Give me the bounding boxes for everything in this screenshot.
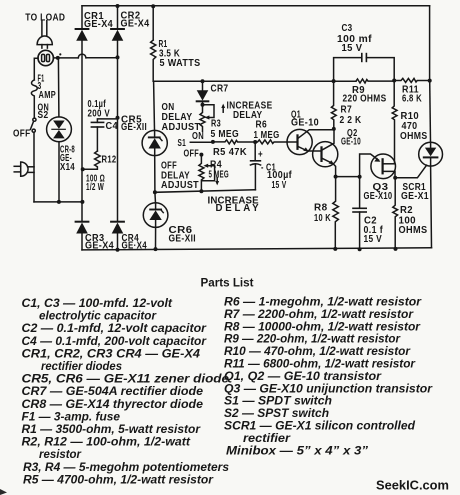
resistor R2 [393, 178, 398, 249]
svg-text:R6 — 1-megohm, 1/2-watt resist: R6 — 1-megohm, 1/2-watt resistor [224, 296, 423, 309]
svg-text:OFF: OFF [184, 149, 200, 160]
node R1 top rail junction [151, 4, 155, 8]
svg-text:S1 — SPDT switch: S1 — SPDT switch [224, 395, 332, 408]
svg-text:1/2 W: 1/2 W [86, 182, 104, 193]
asterisk mark [59, 53, 61, 55]
transistor Q2 [313, 129, 338, 177]
diode CR4 [111, 222, 124, 250]
capacitor C3 [334, 54, 395, 82]
svg-text:C3: C3 [342, 23, 353, 34]
svg-text:OHMS: OHMS [399, 225, 428, 236]
resistor R1 [151, 6, 156, 81]
svg-text:R3, R4 — 5-megohm potentiomete: R3, R4 — 5-megohm potentiometers [23, 461, 230, 474]
switch S1 and main wire [190, 141, 213, 143]
plug to load [37, 21, 52, 48]
resistor R12 [83, 151, 100, 169]
svg-text:S2 — SPST switch: S2 — SPST switch [224, 407, 329, 420]
zener CR6 [143, 192, 168, 249]
svg-text:R5 47K: R5 47K [213, 147, 247, 158]
node rail CR6 [154, 247, 158, 251]
node rail R2 [394, 247, 398, 251]
svg-text:electrolytic capacitor: electrolytic capacitor [39, 310, 157, 323]
svg-text:R9 — 220-ohm, 1/2-watt resisto: R9 — 220-ohm, 1/2-watt resistor [224, 333, 401, 346]
svg-text:TO LOAD: TO LOAD [25, 13, 65, 24]
svg-text:2 2 K: 2 2 K [340, 115, 362, 126]
node R12 to AC2 [81, 167, 85, 171]
svg-text:5 MEG: 5 MEG [211, 129, 240, 140]
wire mid rail y81 [153, 80, 356, 82]
node Q3 base1 gate [393, 176, 397, 180]
svg-text:CR5, CR6 — GE-X11 zener diode: CR5, CR6 — GE-X11 zener diode [22, 373, 230, 386]
node rail CR4 [116, 248, 120, 252]
wire top-right vertical to SCR anode node [429, 6, 431, 81]
potentiometer R3 [200, 105, 214, 132]
wire SCR gate [395, 165, 426, 178]
node R9-R10-C3 [392, 79, 396, 83]
resistor R9 [356, 79, 394, 83]
svg-text:Minibox — 5” x 4” x 3”: Minibox — 5” x 4” x 3” [226, 444, 368, 457]
svg-text:R2: R2 [400, 205, 413, 216]
svg-text:SeekIC.com: SeekIC.com [376, 478, 449, 493]
node S1 OFF contact [199, 153, 203, 157]
socket to load [38, 50, 53, 65]
svg-text:CR7 — GE-504A rectifier diode: CR7 — GE-504A rectifier diode [22, 385, 204, 398]
svg-text:GE-XII: GE-XII [169, 233, 197, 244]
svg-text:R11 — 6800-ohm, 1/2-watt resis: R11 — 6800-ohm, 1/2-watt resistor [224, 358, 417, 371]
wire socket right [53, 57, 78, 59]
resistor R8 [333, 177, 339, 249]
svg-text:Q1, Q2 — GE-10 transistor: Q1, Q2 — GE-10 transistor [224, 370, 383, 383]
svg-text:200 V: 200 V [88, 108, 111, 119]
node R4 bottom [199, 189, 203, 193]
node C1 top [253, 140, 257, 144]
svg-text:GE-X4: GE-X4 [121, 19, 150, 30]
diode CR3 [76, 222, 89, 250]
node CR7 cathode [201, 103, 205, 107]
svg-text:C2 — 0.1-mfd, 12-volt capacito: C2 — 0.1-mfd, 12-volt capacitor [22, 322, 208, 335]
svg-text:GE-X4: GE-X4 [84, 19, 113, 30]
svg-text:ON: ON [192, 131, 204, 142]
resistor R6 [255, 140, 297, 144]
switch S2 [30, 118, 36, 202]
svg-text:GE-X10: GE-X10 [364, 191, 393, 202]
svg-text:S1: S1 [178, 138, 187, 149]
capacitor C4 [91, 119, 116, 151]
transistor Q1 [287, 129, 334, 154]
node AC2 bottom [80, 200, 84, 204]
svg-text:F1 — 3-amp. fuse: F1 — 3-amp. fuse [22, 410, 121, 423]
svg-text:+: + [258, 150, 263, 161]
svg-text:GE-10: GE-10 [341, 136, 361, 147]
node CR2 top rail junction [116, 4, 120, 8]
svg-text:rectifier diodes: rectifier diodes [41, 360, 123, 373]
svg-text:R7: R7 [341, 104, 353, 115]
svg-text:resistor: resistor [39, 448, 82, 461]
svg-text:R7 — 2200-ohm, 1/2-watt resist: R7 — 2200-ohm, 1/2-watt resistor [224, 308, 415, 321]
node Q2 emitter R8 [334, 175, 338, 179]
wire hop over CR1 line [78, 54, 117, 58]
wire plug bottom to bridge [34, 201, 82, 203]
unijunction Q3 [360, 154, 396, 179]
svg-text:rectifier: rectifier [243, 432, 292, 445]
svg-text:Parts List: Parts List [201, 276, 254, 290]
node rail C2 [358, 247, 362, 251]
svg-text:C4 — 0.1-mfd, 200-volt capacit: C4 — 0.1-mfd, 200-volt capacitor [22, 335, 208, 348]
svg-text:GE-XII: GE-XII [121, 122, 147, 133]
svg-text:ADJUST: ADJUST [161, 180, 199, 191]
svg-text:GE·X4: GE·X4 [122, 241, 148, 252]
svg-text:C1, C3 — 100-mfd. 12-volt: C1, C3 — 100-mfd. 12-volt [22, 297, 174, 310]
svg-text:S2: S2 [38, 110, 49, 121]
svg-text:15 V: 15 V [342, 43, 363, 54]
wire bottom rail DC- [82, 248, 432, 250]
svg-text:GE-10: GE-10 [291, 117, 319, 128]
node mid-left rail [153, 190, 157, 194]
svg-text:R3: R3 [211, 119, 221, 130]
svg-text:R1 — 3500-ohm, 5-watt resistor: R1 — 3500-ohm, 5-watt resistor [22, 423, 202, 436]
resistor R10 [392, 81, 397, 164]
svg-text:CR1, CR2, CR3 CR4 — GE-X4: CR1, CR2, CR3 CR4 — GE-X4 [22, 347, 201, 360]
wire Q2 emitter to C2 node [336, 176, 360, 178]
diode CR2 [111, 6, 124, 222]
wire socket left to fuse [34, 58, 38, 80]
arrow increase delay (upper) [221, 104, 225, 113]
svg-text:DELAY: DELAY [216, 203, 260, 214]
node R7 top [332, 79, 336, 83]
svg-text:CR7: CR7 [211, 83, 229, 94]
diode CR1 [76, 6, 89, 222]
node C4 to AC1 [116, 116, 120, 120]
svg-text:GE-X4: GE-X4 [85, 241, 114, 252]
SCR1 [419, 81, 443, 248]
svg-text:CR8 — GE-X14 thyrector diode: CR8 — GE-X14 thyrector diode [22, 398, 204, 411]
svg-text:5 WATTS: 5 WATTS [160, 58, 201, 69]
fuse F1 [31, 80, 37, 118]
svg-text:R2, R12 — 100-ohm, 1/2-watt: R2, R12 — 100-ohm, 1/2-watt [22, 436, 192, 449]
node Q1-Q2 collectors R7 [332, 127, 336, 131]
node socket-CR8 junction [56, 56, 60, 60]
parts list [22, 276, 434, 487]
node AC1 on CR2 line [116, 55, 120, 59]
svg-text:1 MEG: 1 MEG [254, 130, 280, 141]
svg-text:R6: R6 [256, 119, 268, 130]
svg-text:C4: C4 [106, 121, 119, 132]
svg-text:X14: X14 [60, 162, 75, 173]
node rail R8 [333, 247, 337, 251]
resistor R11 [394, 78, 429, 82]
node CR7 top [201, 79, 205, 83]
capacitor C1 [250, 142, 260, 190]
svg-text:OHMS: OHMS [400, 131, 428, 142]
node CR8 bottom [57, 200, 61, 204]
page corner mark [0, 489, 7, 495]
svg-text:10 K: 10 K [314, 213, 331, 224]
svg-text:GE-X1: GE-X1 [401, 191, 429, 202]
svg-text:Q3 — GE-X10 unijunction transi: Q3 — GE-X10 unijunction transistor [224, 382, 434, 395]
thyrector CR8 [47, 58, 72, 202]
svg-text:SCR1 — GE-X1 silicon controlle: SCR1 — GE-X1 silicon controlled [224, 420, 416, 433]
svg-text:AMP: AMP [39, 90, 57, 101]
resistor R5 [213, 140, 255, 144]
capacitor C2 [353, 177, 366, 250]
svg-text:R10 — 470-ohm, 1/2-watt resist: R10 — 470-ohm, 1/2-watt resistor [224, 345, 412, 358]
svg-text:R5 — 4700-ohm, 1/2-watt resist: R5 — 4700-ohm, 1/2-watt resistor [23, 473, 215, 486]
svg-text:220 OHMS: 220 OHMS [343, 94, 387, 105]
resistor R7 [331, 81, 336, 129]
svg-text:5 MEG: 5 MEG [209, 169, 230, 180]
text labels schematic [13, 10, 429, 251]
node SCR anode top [428, 79, 432, 83]
wire top rail DC+ [82, 5, 430, 7]
plug AC input [14, 162, 34, 176]
svg-text:6.8 K: 6.8 K [402, 94, 422, 105]
svg-text:R12: R12 [102, 154, 117, 165]
zener CR5 [142, 81, 167, 192]
diode CR7 [197, 81, 209, 105]
arrow increase delay (lower) [215, 177, 219, 185]
svg-text:R8: R8 [314, 202, 328, 213]
potentiometer R4 [199, 155, 215, 192]
node S1 ON contact [211, 140, 215, 144]
svg-text:R8 — 10000-ohm, 1/2-watt resis: R8 — 10000-ohm, 1/2-watt resistor [224, 320, 422, 333]
svg-text:OFF: OFF [13, 129, 31, 140]
node C2 top [358, 175, 362, 179]
svg-text:15 V: 15 V [272, 180, 287, 191]
wire rail y191 [155, 190, 256, 193]
svg-text:15 V: 15 V [364, 234, 383, 245]
